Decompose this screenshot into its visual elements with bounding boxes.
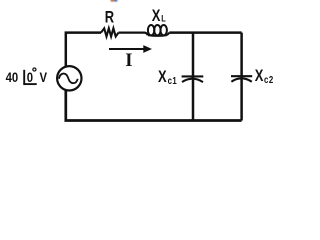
angle symbol underline [23, 83, 36, 85]
AC source sine wave [59, 74, 78, 84]
capacitor C2 curved plate [231, 78, 251, 81]
inductor XL bottom baseline [148, 34, 167, 37]
current arrow [109, 48, 144, 50]
wire: source bottom to bottom-left corner [66, 90, 193, 120]
svg-text:R: R [105, 9, 115, 27]
svg-text:c1: c1 [168, 75, 178, 86]
svg-text:40: 40 [6, 69, 19, 86]
degree mark [33, 68, 36, 71]
capacitor XC2 branch wire [240, 33, 243, 121]
svg-text:L: L [161, 12, 166, 23]
inductor XL exit hook [167, 33, 169, 36]
AC source circle U1 [57, 66, 81, 90]
resistor R [101, 28, 119, 36]
wire: resistor to inductor with entry dip [119, 33, 148, 36]
svg-text:c2: c2 [264, 74, 274, 85]
capacitor C1 top plate [182, 75, 204, 77]
capacitor C1 curved plate [182, 79, 203, 82]
svg-text:V: V [40, 69, 48, 86]
inductor XL coil loop 2 [154, 25, 160, 35]
svg-text:0: 0 [27, 69, 33, 86]
wire: inductor to top-right corner [169, 31, 241, 34]
angle symbol vertical stroke [23, 70, 25, 84]
inductor XL coil loop 1 [148, 25, 154, 35]
svg-text:X: X [158, 69, 167, 87]
bottom wire right half [193, 119, 242, 122]
svg-text:I: I [125, 50, 132, 71]
inductor XL coil loop 3 [161, 25, 167, 35]
capacitor XC1 branch wire [192, 33, 195, 121]
wire: left branch top segment and top-left corner [66, 33, 101, 66]
capacitor C2 top plate [231, 75, 252, 77]
svg-text:X: X [255, 68, 264, 86]
svg-text:X: X [152, 8, 161, 26]
